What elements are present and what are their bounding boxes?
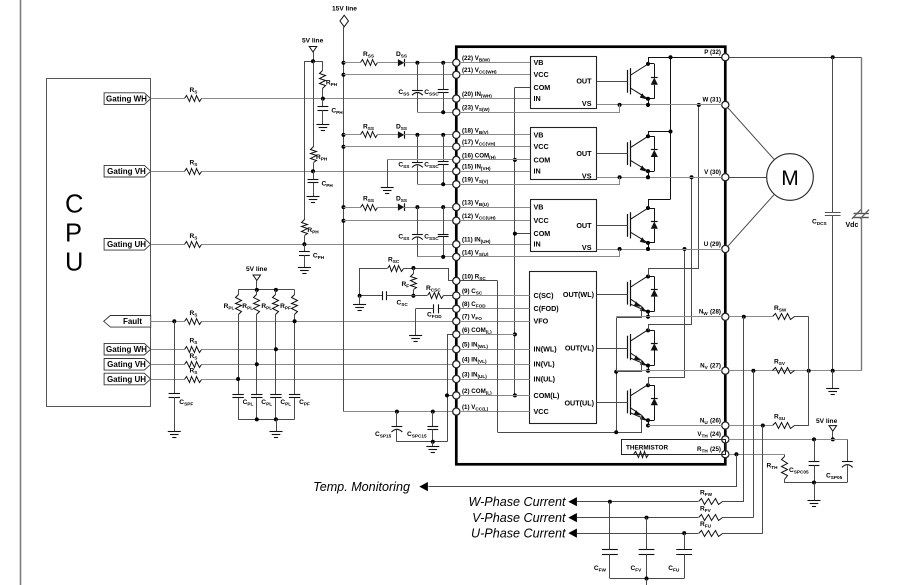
wire Gating UH to IN(UH) pin 11 [151,244,185,246]
capacitor C_SPC15 [431,410,435,414]
pin V (30) [722,174,729,181]
pin (5) IN_(WL) [453,346,460,353]
wire U rail [597,249,722,251]
wire V rail [597,177,722,179]
node emitter of Q4 (WL) [646,310,650,314]
capacitor C_SS (U phase) [415,205,419,209]
pin W (31) [722,101,729,108]
wire Q6 sense drop [641,415,643,432]
wire shunt bus [808,317,810,426]
wire P feed vertical [670,57,672,199]
svg-text:C: C [65,191,83,219]
CPU block [47,79,151,407]
page border line [20,0,22,585]
wire 5V rail top [304,61,323,63]
resistor R_FV [699,515,723,521]
diode freewheel of Q6 (UL) [648,385,654,387]
wire internal COM bus [514,87,516,395]
svg-text:W-Phase Current: W-Phase Current [468,495,566,509]
wire R_SS to D_SS (W phase) [378,62,398,64]
svg-text:Vdc: Vdc [846,222,859,229]
wire pin 2 stub [447,395,453,397]
ground under C_SPF [168,431,181,433]
node Gating WH (low) [104,343,151,355]
pin R_TH_ (25) [722,451,729,458]
svg-text:C(SC): C(SC) [534,291,555,300]
wire N_U to R_SU [729,425,772,427]
transistor Q5 (VL) [627,336,629,359]
resistor R_S #2 [185,169,202,175]
svg-text:VTH (24): VTH (24) [697,431,721,439]
wire N_V row [616,370,722,372]
resistor R_S #1 [185,96,202,102]
node collector of Q5 (VL) [646,328,650,332]
wire Q2 gate [597,153,628,155]
wire cap bottom rail to COM [397,441,447,443]
svg-text:Fault: Fault [123,317,142,326]
wire VB/VCC/IN into driver WH [460,62,530,64]
pin (7) V_FO [453,318,460,325]
wire W rail [597,104,722,106]
wire COM driver WH [515,87,530,89]
resistor R_SS (U phase) [361,205,378,211]
pin U (29) [722,245,729,252]
transistor Q6 (UL) [627,391,629,414]
ground under C_SPC15 [432,442,434,447]
node Gating VH (high) [104,165,151,177]
svg-text:VFO: VFO [534,317,549,326]
wire Gating WH to IN(WL) pin 5 [151,349,185,351]
wire VS jog pin 23 [460,105,620,113]
wire R_TH row [729,454,784,456]
pin (3) IN_(UL) [453,375,460,382]
wire VS rail (W phase) [417,112,453,114]
wire pins 9..1 into LVIC [460,295,530,297]
resistor R_S #6 [185,362,202,368]
wire VS rail (V phase) [417,184,453,186]
svg-text:IN: IN [534,94,541,103]
wire COM driver VH [515,159,530,161]
wire 15V to VCC pin (U phase) [344,220,453,222]
op-amp driver U_VH (HVIC) [531,128,597,180]
ground under C_PL rail [270,431,283,433]
resistor R_SC [360,268,387,270]
wire N rail [729,370,861,372]
svg-text:NU (26): NU (26) [700,417,721,425]
pin (14) V_S(U) [453,253,460,260]
wire VB/VCC/IN into driver VH [460,134,530,136]
resistor R_S #5 [185,347,202,353]
wire V_TH row [729,439,848,441]
wire VS jog pin 19 [460,178,620,185]
resistor R_S #3 [185,242,202,248]
capacitor C_SS (W phase) [415,61,419,65]
svg-text:VCC: VCC [534,70,549,79]
capacitor C_SC [360,295,382,297]
node junction R_PL #1 [236,377,240,381]
node collector of Q1 (WH) [646,62,650,66]
wire 15V to VCC pin (V phase) [344,146,453,148]
svg-text:Gating UH: Gating UH [107,240,146,249]
wire R_SC left leg to ground node [359,268,361,296]
svg-text:VS: VS [582,99,592,108]
wire P rail outside [729,57,861,59]
capacitor C_FOD [438,308,453,310]
diode freewheel of Q5 (VL) [648,330,654,332]
capacitor C_PL #1 [232,394,243,396]
capacitor C_FW [609,502,611,550]
pin (21) V_CC(WH) [453,71,460,78]
svg-text:Gating UH: Gating UH [107,375,146,384]
svg-text:NW (28): NW (28) [699,309,721,317]
svg-text:VS: VS [582,171,592,180]
svg-text:V-Phase Current: V-Phase Current [472,511,566,525]
wire Q6 gate [597,402,628,404]
node junction R_PL #2 [255,362,259,366]
pin N_W_ (28) [722,313,729,320]
svg-text:P: P [65,220,82,248]
wire Q5 sense row [617,361,642,372]
capacitor C_DCS [832,57,834,212]
svg-text:VS: VS [582,243,592,252]
svg-text:5V line: 5V line [816,418,838,425]
wire D_SS to VB pin (U phase) [404,207,453,209]
node Fault [104,316,151,328]
node emitter of Q5 (VL) [646,364,650,368]
wire 15V to R_SS (W phase) [344,62,361,64]
node junction R_PH/VH row [311,169,315,173]
resistor R_PL #1 [238,290,240,295]
pin (10) R_SC [453,277,460,284]
op-amp driver U_UH (HVIC) [531,200,597,252]
capacitor C_FV [646,518,648,550]
wire D_SS to VB pin (W phase) [404,62,453,64]
node collector of Q3 (UH) [646,206,650,210]
wire COM pins 6/2 vertical [447,334,453,336]
wire VS jog pin 14 [460,250,620,257]
ground sc network [358,294,362,298]
svg-text:W (31): W (31) [702,97,721,104]
transistor Q4 (WL) [627,282,629,305]
resistor R_PH (UH) [302,220,308,236]
svg-text:OUT(VL): OUT(VL) [565,344,595,353]
svg-text:15V line: 15V line [332,6,357,13]
capacitor C_PF [289,394,300,396]
diode D_SS (V phase) [398,131,404,138]
wire Q1 gate [597,81,628,83]
node collector of Q2 (VH) [646,134,650,138]
svg-text:OUT(UL): OUT(UL) [564,398,594,407]
capacitor C_FU [684,533,686,550]
wire Q5 gate [597,348,628,350]
svg-text:IN: IN [534,240,541,249]
ground under C_FOD [409,335,422,337]
wire 5V feeds down [322,61,324,70]
pin (4) IN_(VL) [453,361,460,368]
wire Q5 collector to V [649,178,692,331]
wire VB/VCC/IN into driver UH [460,207,530,209]
svg-text:Temp. Monitoring: Temp. Monitoring [313,480,410,494]
svg-text:V (30): V (30) [704,169,721,176]
svg-text:OUT: OUT [576,77,592,86]
ground under C_PH (VH) [307,196,320,198]
diode freewheel of Q2 (VH) [648,136,654,138]
svg-text:OUT(WL): OUT(WL) [563,290,595,299]
resistor R_PH (WH) [320,71,326,89]
svg-text:Gating VH: Gating VH [107,360,146,369]
pin N_V_ (27) [722,367,729,374]
node Gating UH (high) [104,239,151,251]
resistor R_SS (V phase) [361,132,378,138]
thermistor block [622,440,726,455]
svg-text:M: M [781,167,799,190]
wire Q1 collector to P rail [648,57,650,64]
svg-text:COM: COM [534,155,551,164]
capacitor C_PL #3 [270,394,281,396]
svg-text:COM(L): COM(L) [534,391,561,400]
node junction R_PL #3 [274,347,278,351]
wire C_F bottom rail [610,578,684,580]
resistor R_FU [699,531,723,537]
wire Q4 sense row [617,307,642,318]
svg-text:VCC: VCC [534,142,549,151]
resistor R_S #4 [185,319,202,325]
svg-text:IN(VL): IN(VL) [534,360,556,369]
pin (15) IN_(VH) [453,168,460,175]
node junction R_PF [293,319,297,323]
svg-text:P (32): P (32) [704,49,721,56]
node Gating UH (low) [104,373,151,385]
node collector of Q4 (WL) [646,275,650,279]
svg-text:U-Phase Current: U-Phase Current [471,527,566,541]
node collector of Q6 (UL) [646,383,650,387]
capacitor C_PL #2 [251,394,262,396]
wire feed FV vertical [753,371,755,518]
wire C_PL bottom rail [238,419,295,421]
resistor R_SS (W phase) [361,60,378,66]
wire pin10 sense line [460,280,498,282]
capacitor C_PH (UH) [304,244,306,251]
resistor R_CSC [413,295,427,297]
op-amp driver U_WH (HVIC) [531,57,597,109]
wire 15V to VCC pin (W phase) [344,74,453,76]
pin (12) V_CC(UH) [453,217,460,224]
wire VS rail (U phase) [417,256,453,258]
capacitor C_SP05 [847,439,849,461]
transistor Q2 (VH) [627,142,629,165]
diode freewheel of Q3 (UH) [648,208,654,210]
resistor R_SV [773,368,795,374]
resistor R_S #7 [185,377,202,383]
pin (16) COM_(H) [453,156,460,163]
battery Vdc [861,57,863,213]
wire Q3 gate [597,225,628,227]
capacitor C_SSC (U phase) [441,205,445,209]
resistor R_SW [773,314,795,320]
wire Q3 collector jog [649,200,671,209]
svg-text:Gating WH: Gating WH [106,94,147,103]
motor M [767,154,814,201]
capacitor C_SPC05 [814,439,816,461]
capacitor C_PH (WH) [322,99,324,107]
wire D_SS to VB pin (V phase) [404,134,453,136]
resistor R_PL #2 [256,290,258,295]
svg-text:C(FOD): C(FOD) [534,304,560,313]
wire pin6 COM to bus [460,334,515,336]
node emitter of Q3 (UH) [646,241,650,245]
svg-text:THERMISTOR: THERMISTOR [626,444,669,451]
pin (23) V_S(W) [453,109,460,116]
pin (9) C_SC [453,292,460,299]
capacitor C_SP15 [395,410,399,414]
ground under C_PH (WH) [316,124,329,126]
resistor R_F [411,274,417,290]
resistor R_FW [699,499,723,505]
wire pin16 COM into driver VH [460,159,530,161]
IPM module outline [456,47,725,465]
resistor R_PL #3 [275,290,277,295]
wire COM(H) pin16 to ground [387,159,453,161]
wire R_SS to D_SS (U phase) [378,207,398,209]
diode D_SS (W phase) [398,59,404,66]
svg-text:NV (27): NV (27) [700,363,721,371]
op-amp driver U_L (LVIC) [530,272,597,424]
wire Q6 collector to U [649,250,685,386]
wire FV row [577,517,698,519]
wire Gating VH to IN(VH) pin 15 [151,171,185,173]
ground under C_PH (UH) [298,267,311,269]
wire Fault to VFO pin 7 [151,321,185,323]
diode freewheel of Q4 (WL) [648,276,654,278]
wire temp monitoring [429,455,737,487]
svg-text:5V line: 5V line [246,266,268,273]
capacitor C_SS (V phase) [415,133,419,137]
svg-text:VCC: VCC [534,407,549,416]
svg-text:COM: COM [534,229,551,238]
wire FW row [577,501,698,503]
pin N_U_ (26) [722,422,729,429]
wire FU row [577,533,698,535]
svg-text:IN(UL): IN(UL) [534,374,556,383]
wire thermistor bias rail [784,482,847,484]
diode freewheel of Q1 (WH) [648,63,654,65]
transistor Q3 (UH) [627,214,629,237]
node junction R_PH/WH row [321,97,325,101]
svg-text:U (29): U (29) [704,241,721,248]
svg-text:OUT: OUT [576,221,592,230]
wire N_U row [648,425,722,427]
svg-text:VB: VB [534,58,544,67]
wire Gating UH to IN(UL) pin 3 [151,379,185,381]
pin P (32) [722,54,729,61]
wire feed FW vertical [743,317,745,502]
capacitor C_PH (VH) [313,171,315,179]
svg-text:OUT: OUT [576,149,592,158]
wire Q4 collector to W [649,105,699,277]
resistor R_PH (VH) [311,147,317,163]
capacitor C_SPF [172,319,176,323]
svg-text:Gating WH: Gating WH [106,345,147,354]
wire sense emitter bus [616,318,618,432]
wire 15V to R_SS (U phase) [344,207,361,209]
svg-text:5V line: 5V line [302,38,324,45]
svg-text:RTH (25): RTH (25) [697,446,721,454]
capacitor C_SSC (W phase) [441,61,445,65]
node junction R_PH/UH row [302,242,306,246]
node Gating VH (low) [104,359,151,371]
resistor R_SU [773,423,795,429]
wire Gating VH to IN(VL) pin 4 [151,364,185,366]
ground thermistor bias [814,483,816,501]
node emitter of Q2 (VH) [646,169,650,173]
diode D_SS (U phase) [398,204,404,211]
wire feed FU vertical [762,426,764,534]
svg-text:Gating VH: Gating VH [107,167,146,176]
svg-text:COM: COM [534,83,551,92]
pin (1) V_CC(L) [453,408,460,415]
node sc filter junction [411,294,415,298]
pin (11) IN_(UH) [453,241,460,248]
wire Q4 gate [597,294,628,296]
wire 5V rail lower [238,289,295,291]
wire 15V vertical bus [343,27,345,412]
pin (20) IN_(WH) [453,95,460,102]
node emitter of Q6 (UL) [646,418,650,422]
svg-text:U: U [65,249,83,277]
wire N_W row [616,316,722,318]
wire U to motor [728,194,775,246]
svg-text:VB: VB [534,203,544,212]
wire Q2 collector jog [649,132,671,137]
wire R_SC right to pin 10 [403,268,448,270]
transistor Q1 (WH) [627,70,629,93]
pin (19) V_S(V) [453,181,460,188]
wire P rail [648,57,722,59]
svg-text:VB: VB [534,130,544,139]
pin V_TH_ (24) [722,436,729,443]
wire V to motor [729,177,767,179]
wire R_SS to D_SS (V phase) [378,134,398,136]
pin (13) V_B(U) [453,204,460,211]
wire 15V to R_SS (V phase) [344,134,361,136]
wire W to motor [728,108,775,160]
resistor R_PF [294,290,296,295]
svg-text:VCC: VCC [534,216,549,225]
pin (17) V_CC(VH) [453,143,460,150]
wire Gating WH to IN(WH) pin 20 [151,98,185,100]
pin (22) V_B(W) [453,59,460,66]
wire N_W to R_SW [729,316,772,318]
svg-text:IN(WL): IN(WL) [534,345,558,354]
resistor R_TH [784,454,786,456]
pin (18) V_B(V) [453,131,460,138]
wire COM driver UH [515,233,530,235]
ground N rail [832,371,834,388]
ground COM(H) [381,187,394,189]
node Gating WH (high) [104,93,151,105]
capacitor C_SSC (V phase) [441,133,445,137]
pin (8) C_FOD [453,305,460,312]
svg-text:IN: IN [534,167,541,176]
pin (6) COM_(L) [453,331,460,338]
node emitter of Q1 (WH) [646,97,650,101]
pin (2) COM_(L) [453,392,460,399]
